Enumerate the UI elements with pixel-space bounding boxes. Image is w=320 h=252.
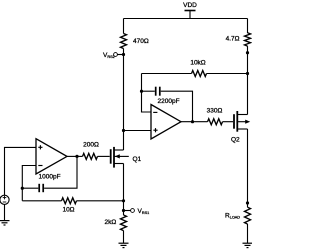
node junction capacitor tap <box>140 90 143 93</box>
wire Q2 source column <box>247 129 249 207</box>
wire cap row right up to output <box>44 156 77 188</box>
transistor Q2 <box>234 111 250 132</box>
svg-text:200Ω: 200Ω <box>83 142 99 149</box>
wire Q2 drain column <box>247 19 249 34</box>
svg-text:2kΩ: 2kΩ <box>105 219 117 226</box>
node junction below 4.7Ω <box>246 51 249 54</box>
wire 2kΩ to ground <box>123 231 125 244</box>
wire left branch top <box>123 19 125 34</box>
node junction VRS2 <box>122 53 125 56</box>
wire opamp1 output <box>67 155 83 157</box>
wire 470Ω to Q1 drain <box>123 49 125 151</box>
wire VRS2 terminal stub <box>118 54 124 56</box>
wire cap row left <box>142 90 155 92</box>
capacitor 1000pF <box>39 184 43 192</box>
wire RLOAD to ground <box>247 224 249 243</box>
wire feedback top row right <box>207 73 248 75</box>
wire 4.7Ω to Q2 drain <box>247 46 249 114</box>
wire cap row right <box>161 91 193 122</box>
wire opamp2 output <box>181 121 208 123</box>
wire source to ground <box>4 204 6 220</box>
op-amp U2 <box>151 105 181 140</box>
node junction opamp2 output <box>191 120 194 123</box>
wire feedback top row left <box>142 73 192 75</box>
voltage source V1 <box>0 195 9 204</box>
wire 10Ω to Q1 source column <box>77 200 124 202</box>
wire top rail <box>124 18 248 20</box>
wire to opamp2 + input <box>124 130 152 132</box>
VDD supply symbol <box>185 11 196 19</box>
node junction feedback to Q2 drain column <box>246 72 249 75</box>
svg-text:1000pF: 1000pF <box>39 173 61 180</box>
transistor Q1 <box>111 147 129 168</box>
wire 330Ω to Q2 gate <box>223 121 234 123</box>
wire cap row to plate <box>22 187 38 189</box>
resistor 4.7Ω <box>245 33 251 46</box>
svg-text:10Ω: 10Ω <box>62 207 74 214</box>
svg-text:Q1: Q1 <box>133 156 142 163</box>
ground (RLOAD) <box>243 243 253 247</box>
svg-text:330Ω: 330Ω <box>207 107 223 114</box>
wire opamp1 + input <box>5 147 37 195</box>
svg-text:VDD: VDD <box>183 2 197 9</box>
node junction opamp1 output <box>75 155 78 158</box>
svg-text:470Ω: 470Ω <box>133 38 149 45</box>
wire opamp2 inverting input <box>142 74 152 113</box>
resistor 10Ω <box>62 198 77 204</box>
resistor 200Ω <box>83 153 98 159</box>
svg-text:10kΩ: 10kΩ <box>190 60 205 67</box>
resistor 330Ω <box>208 119 223 125</box>
wire opamp1 - input <box>22 166 36 201</box>
node junction cap row left <box>21 187 24 190</box>
node junction opamp2 + input <box>122 129 125 132</box>
op-amp U1 <box>36 139 67 174</box>
resistor 2kΩ <box>121 215 127 231</box>
ground (2kΩ) <box>119 243 129 247</box>
svg-text:2200pF: 2200pF <box>158 98 180 105</box>
terminal VRS2 <box>114 53 118 57</box>
capacitor 2200pF <box>156 87 160 96</box>
svg-text:4.7Ω: 4.7Ω <box>226 36 240 43</box>
resistor 10kΩ <box>192 71 207 77</box>
terminal VRS1 <box>131 209 135 213</box>
resistor 470Ω <box>121 34 127 49</box>
svg-text:Q2: Q2 <box>231 137 240 144</box>
ground (V1) <box>0 221 10 225</box>
wire 10Ω row <box>22 200 61 202</box>
node junction above RLOAD <box>246 201 249 204</box>
wire Q1 source column <box>123 164 125 216</box>
wire VRS1 terminal stub <box>124 210 131 212</box>
node junction 10Ω at Q1 source column <box>122 199 125 202</box>
resistor RLOAD <box>245 207 251 224</box>
wire 200Ω to Q1 gate <box>98 155 110 157</box>
node junction VRS1 <box>122 209 125 212</box>
